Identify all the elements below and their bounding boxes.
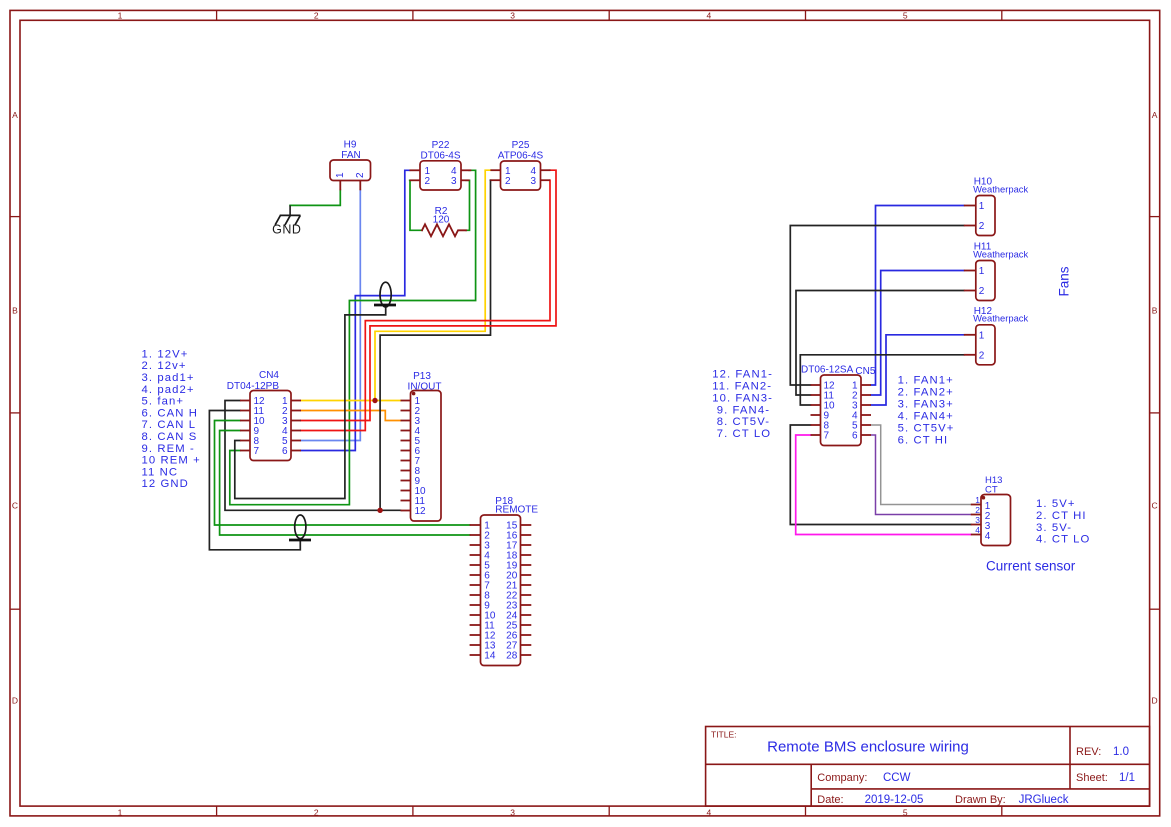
- svg-text:7: 7: [254, 446, 260, 457]
- connector P25 (ATP06-4S): [490, 140, 550, 190]
- svg-text:11. FAN2-: 11. FAN2-: [712, 381, 772, 393]
- cable shield SH2 (remote pair): [289, 515, 311, 540]
- wire CN5 pin2 to H11 pin1 (blue): [871, 271, 964, 396]
- svg-text:C: C: [12, 500, 18, 510]
- svg-text:JRGlueck: JRGlueck: [1019, 794, 1069, 806]
- connector CN4 (DT04-12PB): [227, 370, 301, 460]
- svg-text:B: B: [1152, 305, 1158, 315]
- CN4 pinout legend: [142, 348, 201, 490]
- wire H11 pin2 to CN5 pin11 (black): [796, 291, 964, 396]
- wire P25 pin2 to node B (black): [380, 180, 490, 510]
- svg-text:Sheet:: Sheet:: [1076, 772, 1108, 784]
- wire CN5 pin3 to H12 pin1 (blue): [871, 335, 964, 405]
- wire CN5 pin6 to H13 pin2 (purple): [871, 435, 971, 515]
- svg-text:3: 3: [510, 10, 515, 20]
- svg-text:2: 2: [979, 221, 985, 232]
- wire P22 pin2 to R2 left (green): [410, 180, 422, 230]
- svg-text:2: 2: [314, 10, 319, 20]
- svg-text:Drawn By:: Drawn By:: [955, 794, 1006, 806]
- svg-text:6. CAN H: 6. CAN H: [142, 407, 199, 419]
- svg-text:DT06-12SA: DT06-12SA: [801, 365, 854, 376]
- svg-text:4: 4: [975, 525, 980, 535]
- CN5 right pinout legend: [898, 374, 955, 446]
- svg-text:3: 3: [510, 808, 515, 818]
- svg-text:FAN: FAN: [341, 150, 360, 161]
- svg-text:Company:: Company:: [817, 772, 867, 784]
- svg-text:5: 5: [903, 808, 908, 818]
- svg-text:A: A: [1152, 110, 1158, 120]
- svg-text:C: C: [1152, 500, 1158, 510]
- wire P22 pin1 to CN4 pin6 (blue): [301, 170, 410, 450]
- connector H12 (Weatherpack): [964, 306, 1029, 365]
- svg-text:5. CT5V+: 5. CT5V+: [898, 422, 955, 434]
- svg-text:1: 1: [979, 201, 985, 212]
- svg-text:28: 28: [506, 651, 518, 662]
- connector P13 (IN/OUT): [401, 371, 442, 521]
- wire P25 pin1 to node A (yellow): [375, 170, 490, 400]
- svg-text:1: 1: [979, 266, 985, 277]
- connector H13 (CT): [971, 475, 1011, 546]
- wire CN4 pin2 to P13 pin3 (orange): [301, 411, 401, 421]
- connector P18 (REMOTE): [470, 496, 539, 665]
- svg-text:3. 5V-: 3. 5V-: [1036, 522, 1072, 534]
- svg-text:CT: CT: [985, 484, 998, 495]
- svg-text:CCW: CCW: [883, 772, 911, 784]
- svg-text:4. FAN4+: 4. FAN4+: [898, 410, 954, 422]
- wire CN4 pin1 to P13 pin1 (yellow): [301, 400, 401, 402]
- wire H9 pin1 to GND (green): [290, 190, 340, 205]
- connector H9 (FAN): [330, 140, 371, 191]
- svg-text:D: D: [12, 695, 18, 705]
- svg-text:12. FAN1-: 12. FAN1-: [712, 369, 773, 381]
- wire CN4 pin8 to shield SH1 (black): [235, 306, 386, 499]
- svg-text:5. fan+: 5. fan+: [142, 396, 185, 408]
- svg-text:2. CT HI: 2. CT HI: [1036, 510, 1087, 522]
- svg-text:7. CAN L: 7. CAN L: [142, 419, 197, 431]
- svg-text:3. pad1+: 3. pad1+: [142, 372, 195, 384]
- svg-text:3: 3: [530, 176, 536, 187]
- cable shield SH1 (CAN pair): [374, 282, 396, 307]
- svg-text:Current sensor: Current sensor: [986, 559, 1076, 574]
- svg-text:CN5: CN5: [855, 366, 875, 377]
- wire R2 right to P22 pin3 (green): [466, 180, 470, 230]
- svg-text:7. CT LO: 7. CT LO: [717, 428, 771, 440]
- svg-text:2019-12-05: 2019-12-05: [865, 794, 924, 806]
- wire CN5 pin5 to H13 pin1 (gray): [871, 425, 971, 505]
- ground symbol GND (chassis): [272, 205, 301, 236]
- svg-text:Fans: Fans: [1056, 266, 1071, 296]
- connector P22 (DT06-4S): [410, 140, 472, 190]
- wire H12 pin2 to CN5 pin10 (black): [800, 355, 964, 405]
- Sheet field: [1076, 772, 1135, 784]
- svg-text:2: 2: [314, 808, 319, 818]
- svg-text:DT06-4S: DT06-4S: [420, 151, 460, 162]
- svg-text:Weatherpack: Weatherpack: [973, 313, 1028, 324]
- wire CN5 pin7 to H13 pin4 (magenta): [796, 435, 971, 535]
- junction node B (black net): [377, 508, 382, 513]
- svg-text:4: 4: [707, 10, 712, 20]
- svg-text:D: D: [1152, 695, 1158, 705]
- svg-text:1. FAN1+: 1. FAN1+: [898, 374, 954, 386]
- connector H11 (Weatherpack): [964, 242, 1029, 301]
- svg-text:12 GND: 12 GND: [142, 478, 189, 490]
- svg-text:9. FAN4-: 9. FAN4-: [717, 404, 770, 416]
- svg-text:1: 1: [118, 10, 123, 20]
- svg-text:14: 14: [484, 651, 496, 662]
- svg-text:Weatherpack: Weatherpack: [973, 248, 1028, 259]
- svg-text:Remote BMS enclosure wiring: Remote BMS enclosure wiring: [767, 739, 969, 756]
- svg-text:9. REM -: 9. REM -: [142, 443, 195, 455]
- svg-text:2. 12v+: 2. 12v+: [142, 360, 187, 372]
- wire CN5 pin8 to H13 pin3 (black): [790, 425, 971, 525]
- Company field: [817, 772, 910, 784]
- connector CN5 (DT06-12SA): [801, 365, 876, 446]
- svg-text:REV:: REV:: [1076, 746, 1101, 758]
- svg-text:DT04-12PB: DT04-12PB: [227, 381, 280, 392]
- svg-text:REMOTE: REMOTE: [495, 505, 538, 516]
- svg-text:10. FAN3-: 10. FAN3-: [712, 392, 773, 404]
- wire P22 pin4 to CN4 pin7 (green): [230, 170, 476, 504]
- svg-text:7: 7: [824, 431, 830, 442]
- svg-text:1: 1: [979, 330, 985, 341]
- svg-text:1. 12V+: 1. 12V+: [142, 348, 189, 360]
- svg-text:1/1: 1/1: [1119, 772, 1135, 784]
- svg-text:6: 6: [852, 431, 858, 442]
- Date field: [817, 794, 923, 806]
- wire CN4 pin9 to P18 pin2 (green): [220, 431, 470, 536]
- svg-text:10 REM +: 10 REM +: [142, 455, 201, 467]
- svg-text:P22: P22: [432, 140, 450, 151]
- svg-text:4. CT LO: 4. CT LO: [1036, 534, 1090, 546]
- resistor R2 (120): [422, 206, 466, 236]
- svg-text:8. CT5V-: 8. CT5V-: [717, 416, 770, 428]
- svg-text:5: 5: [903, 10, 908, 20]
- svg-text:B: B: [12, 305, 18, 315]
- wire H9 pin2 to CN4 pin5 (cornflower blue): [301, 190, 360, 440]
- svg-text:2: 2: [355, 172, 366, 178]
- svg-text:CN4: CN4: [259, 370, 279, 381]
- junction node A (yellow net): [372, 398, 377, 403]
- wire CN4 pin10 to P18 pin1 (green): [215, 421, 470, 526]
- Drawn By field: [955, 794, 1069, 806]
- svg-text:8. CAN S: 8. CAN S: [142, 431, 198, 443]
- title block: [706, 727, 1150, 807]
- svg-text:3: 3: [451, 176, 457, 187]
- wire P25 pin4 to CN4 pin3 (red): [301, 170, 556, 420]
- svg-text:Weatherpack: Weatherpack: [973, 183, 1028, 194]
- wire P25 pin3 to CN4 pin4 (red): [301, 180, 550, 430]
- svg-text:11 NC: 11 NC: [142, 466, 179, 478]
- svg-text:6. CT HI: 6. CT HI: [898, 434, 949, 446]
- svg-text:2: 2: [979, 350, 985, 361]
- svg-text:2. FAN2+: 2. FAN2+: [898, 386, 954, 398]
- connector H10 (Weatherpack): [964, 177, 1029, 236]
- svg-text:TITLE:: TITLE:: [711, 730, 737, 740]
- wire CN5 pin1 to H10 pin1 (blue): [871, 206, 964, 386]
- CN5 left pinout legend: [712, 369, 773, 441]
- svg-text:1: 1: [335, 172, 346, 178]
- svg-text:2: 2: [979, 286, 985, 297]
- wire CN4 pin11 to shield SH2 (black): [209, 411, 300, 550]
- svg-text:2: 2: [975, 505, 980, 515]
- svg-text:4. pad2+: 4. pad2+: [142, 384, 195, 396]
- svg-text:12: 12: [415, 506, 427, 517]
- svg-text:6: 6: [282, 446, 288, 457]
- svg-text:3. FAN3+: 3. FAN3+: [898, 398, 954, 410]
- svg-text:GND: GND: [272, 222, 301, 236]
- svg-text:P25: P25: [512, 140, 530, 151]
- svg-text:1: 1: [118, 808, 123, 818]
- svg-text:IN/OUT: IN/OUT: [408, 381, 442, 392]
- svg-text:4: 4: [985, 531, 991, 542]
- svg-text:120: 120: [433, 215, 450, 226]
- svg-text:2: 2: [505, 176, 511, 187]
- svg-text:ATP06-4S: ATP06-4S: [498, 151, 544, 162]
- svg-text:1: 1: [975, 495, 980, 505]
- wire H10 pin2 to CN5 pin12 (black): [790, 226, 964, 386]
- svg-text:2: 2: [425, 176, 431, 187]
- svg-text:Date:: Date:: [817, 794, 843, 806]
- wire CN4 pin12 to P13 pin12 (black): [225, 401, 401, 511]
- REV field: [1076, 746, 1129, 758]
- svg-text:1.0: 1.0: [1113, 746, 1129, 758]
- H13 pinout legend: [1036, 498, 1090, 545]
- svg-text:4: 4: [707, 808, 712, 818]
- svg-text:1. 5V+: 1. 5V+: [1036, 498, 1076, 510]
- svg-text:A: A: [12, 110, 18, 120]
- svg-text:3: 3: [975, 515, 980, 525]
